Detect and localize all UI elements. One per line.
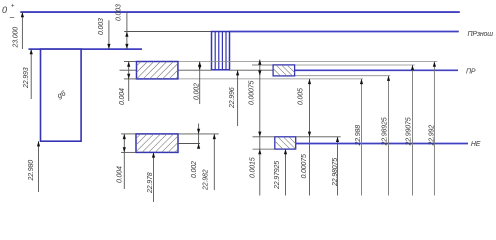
wire 22.992 extension right [178,61,437,63]
svg-text:0.0015: 0.0015 [250,157,257,178]
svg-text:22.996: 22.996 [229,87,236,109]
svg-text:ПР: ПР [466,68,476,75]
svg-text:22.978: 22.978 [147,172,154,194]
svg-text:22.97925: 22.97925 [274,161,281,190]
wire 22.978 extension left stub [121,151,136,153]
svg-text:0.00075: 0.00075 [248,80,255,105]
dimension 22.978 [147,152,155,202]
svg-text:22.980: 22.980 [28,160,35,182]
svg-text:–: – [9,13,15,22]
dimension 0.005 and 0.00075 K-NE (shared line) [298,79,312,196]
component NE gauge tolerance field (hatched rectangle) [136,134,178,153]
wire PR level thin middle2 [230,69,274,71]
wire PR line blue [295,69,458,71]
wire K-NE top extension left [253,136,275,138]
wire PR level thin middle1 [178,69,212,71]
wire 22.99075 extension right [295,64,415,66]
svg-text:22.988: 22.988 [355,125,362,147]
wire 22.98925 extension right [295,75,391,77]
svg-text:0.00075: 0.00075 [301,154,308,179]
dimension 0.002 NE [191,124,200,179]
svg-text:ПРзнош: ПРзнош [468,31,494,38]
dimension 22.99075 [406,65,415,196]
svg-text:22.98925: 22.98925 [382,117,389,146]
dimension 0.004 NE [117,134,126,189]
wire NE level thin [178,143,200,145]
wire 22.988 extension left stub [124,78,137,80]
svg-text:22.982: 22.982 [203,169,210,191]
svg-text:НЕ: НЕ [471,141,481,148]
dimension 22.996 [229,70,239,126]
svg-text:0.003: 0.003 [98,18,105,35]
svg-text:0: 0 [2,5,7,15]
dimension 22.98075 [332,137,339,196]
node 0 (zero line origin label) [2,3,15,22]
wire PRznosh level line (thin left part) [124,31,211,33]
dimension 22.97925 [274,149,287,195]
svg-text:+: + [11,3,15,10]
dimension 0.002 PR [194,62,202,105]
dimension 0.00075 K-PR and 0.0015 K-NE (shared line) [248,60,261,196]
wire zero-line 23.000 [20,11,460,13]
wire 22.982 extension left stub [121,133,136,135]
svg-text:22.992: 22.992 [429,125,436,147]
svg-text:22.99075: 22.99075 [406,117,413,146]
wire K-NE bottom extension left [253,148,275,150]
wire 22.988 extension right [178,78,363,80]
wire 22.993 level line [29,48,143,50]
svg-text:0.005: 0.005 [298,88,305,105]
dimension 22.992 [429,62,437,196]
svg-text:0.004: 0.004 [119,88,126,105]
svg-text:23.000: 23.000 [13,27,20,49]
wire NE line blue [296,143,468,145]
svg-text:0.004: 0.004 [117,166,124,183]
dimension 22.982 [203,134,216,191]
wire PRznosh level line (blue right part) [230,31,459,33]
wire 22.992 extension left stub [124,61,137,63]
wire 22.99075 extension left [252,64,273,66]
dimension 0.003 first [98,18,111,49]
svg-text:0.002: 0.002 [191,161,198,178]
component K-NE control gauge field (small hatched rectangle) [275,137,296,149]
dimension 22.988 [355,79,363,196]
wire PR level thin left [120,69,137,71]
dimension 23.000 [13,12,25,49]
svg-text:0.003: 0.003 [116,4,123,21]
svg-text:0.002: 0.002 [194,83,201,100]
dimension 0.003 second [116,4,129,49]
wire 22.982 extension right [178,133,219,135]
component K-PR control gauge field (small hatched rectangle) [273,65,295,76]
dimension 22.980 [28,141,40,192]
dimension 22.993 [23,49,33,99]
component shaft tolerance field g6 (big rectangle) [41,49,82,141]
wire K-NE top extension right [296,136,341,138]
dimension 22.98925 [382,76,391,196]
svg-text:22.993: 22.993 [23,67,30,89]
svg-text:22.98075: 22.98075 [332,158,339,187]
dimension 0.004 PR [119,62,130,106]
component wear zone (striped rectangle) [212,32,230,70]
component PR gauge tolerance field (hatched rectangle) [137,62,178,79]
